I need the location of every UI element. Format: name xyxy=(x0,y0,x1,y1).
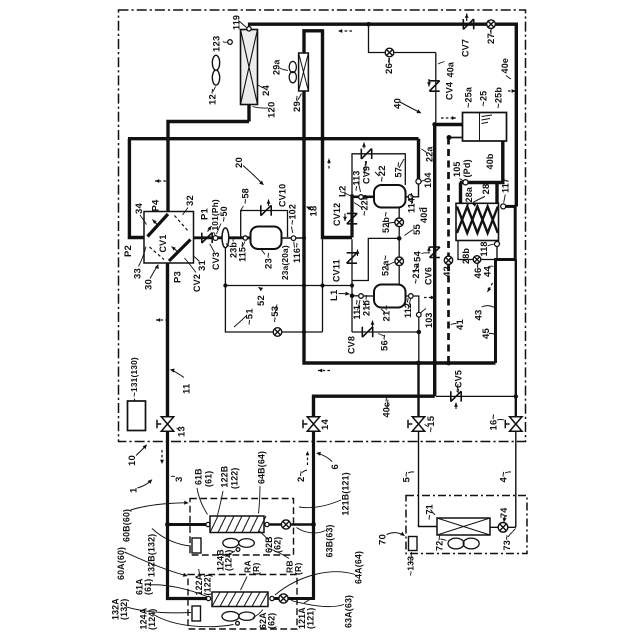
dashed alternate passage upper (32) xyxy=(175,216,189,232)
leader: 42 tilde xyxy=(447,265,448,268)
port circle 117 xyxy=(501,204,506,209)
leader: 50 tilde xyxy=(217,224,222,235)
leader: 64B curve xyxy=(259,486,261,514)
fan 72 xyxy=(448,538,479,549)
wire: valve 52a line into compressor 21 top xyxy=(398,240,400,284)
arrow: dashed 44 flow down-left xyxy=(488,283,493,292)
node: (434.7,124.5) xyxy=(432,122,437,127)
wire: riser to P2 of four-way valve xyxy=(129,139,144,238)
leader: 23 tilde xyxy=(262,250,266,255)
svg-text:L1: L1 xyxy=(329,289,340,301)
shutoff valve 13 xyxy=(157,417,174,431)
svg-text:33: 33 xyxy=(133,268,144,279)
controller box 131 xyxy=(128,401,146,431)
compressor 21 body xyxy=(374,285,406,308)
leader: 33 curve xyxy=(139,247,147,267)
svg-text:23~: 23~ xyxy=(264,252,275,269)
svg-text:52a~: 52a~ xyxy=(381,255,391,276)
node: pipe3 x branch xyxy=(165,522,170,527)
svg-text:CV6: CV6 xyxy=(424,267,434,285)
svg-text:P3: P3 xyxy=(173,271,184,283)
svg-text:(122): (122) xyxy=(203,574,213,596)
svg-text:5~: 5~ xyxy=(402,471,413,482)
port circle 111 (21b) xyxy=(359,294,364,299)
expansion valve 74 xyxy=(498,523,508,533)
arrow: CV9 flow up xyxy=(362,143,366,149)
wire: pipe 3 below valve 13 xyxy=(166,432,169,599)
wire: x=352 down to CV8 line xyxy=(351,296,353,332)
leader: CV9 tilde xyxy=(365,161,366,175)
port circle 114 xyxy=(408,195,413,200)
node: (352,295.8) xyxy=(350,294,355,299)
leader: 41 tilde xyxy=(451,324,457,325)
leader: CV5 tilde xyxy=(457,384,458,392)
svg-text:10: 10 xyxy=(127,455,138,466)
check valve CV7 on top header xyxy=(463,19,473,29)
leader: 54 tilde xyxy=(422,252,430,255)
wire: CV10 bypass around compressor 23 xyxy=(241,211,288,238)
leader: 74 arrow xyxy=(503,516,507,523)
svg-text:P2: P2 xyxy=(123,245,134,257)
svg-text:CV1: CV1 xyxy=(158,234,168,252)
leader: 61A curve xyxy=(149,585,208,597)
leader: 55 tilde xyxy=(405,230,414,236)
leader: 113 tilde xyxy=(358,182,361,193)
sensor 124A xyxy=(236,621,240,625)
leader: 52 arrow xyxy=(258,287,263,291)
sensor port 105(Pd) xyxy=(463,180,468,185)
svg-text:122B: 122B xyxy=(220,466,230,488)
leader: 31 curve xyxy=(194,257,200,262)
leader: 71 tilde xyxy=(431,510,436,516)
leader: 63B curve xyxy=(297,528,326,533)
wire: CV4 vertical line x=435.8 xyxy=(435,53,437,125)
arrow: CV5 flow up xyxy=(454,403,458,410)
leader: CV3 curve xyxy=(210,244,215,253)
arrow: dashed right 103 xyxy=(424,296,435,300)
wire: 28b left port line through valve 46 xyxy=(458,241,494,260)
leader: 64A curve xyxy=(275,572,355,595)
port circle 112 xyxy=(409,294,414,299)
svg-text:28a: 28a xyxy=(464,186,474,202)
svg-text:55: 55 xyxy=(412,224,423,235)
leader: 52a tilde xyxy=(385,262,395,267)
leader: 133 tilde xyxy=(411,552,412,564)
indoor heat exchanger 61A/64A (hatched) xyxy=(212,592,268,607)
node: junction riser x=322.5 x long line xyxy=(320,136,325,141)
leader: 52b tilde xyxy=(385,223,395,225)
shutoff valve 15 xyxy=(408,417,425,431)
svg-text:101(Ph): 101(Ph) xyxy=(210,199,220,230)
wire: link x=322.5 between y=285.5 and y=332 xyxy=(322,286,324,333)
node: bus x CV6 line xyxy=(432,361,437,366)
wire: node to port 111 xyxy=(352,295,359,297)
svg-text:28b: 28b xyxy=(461,248,471,264)
node: (304,332) xyxy=(302,330,306,334)
leader: 40 arrow xyxy=(400,102,422,113)
leader: 28a tilde xyxy=(467,204,470,207)
wire: HX24 bottom to riser x=168 xyxy=(168,122,249,212)
fan 29a of HX29 xyxy=(289,61,296,82)
svg-text:16~: 16~ xyxy=(489,414,500,431)
leader: CV2 curve xyxy=(185,258,197,273)
check valve CV3 xyxy=(202,233,212,243)
leader: 51 tilde xyxy=(234,316,246,327)
arrow: dashed flow left on pipe 11 y=320 xyxy=(156,318,168,322)
node: (399.2,238.4) xyxy=(397,236,402,241)
svg-text:CV12: CV12 xyxy=(332,203,342,226)
svg-text:11: 11 xyxy=(182,383,193,394)
arrow: CV8 flow up xyxy=(371,321,375,328)
indoor unit B dashed box 60B xyxy=(190,499,294,556)
svg-text:132B(132): 132B(132) xyxy=(147,534,157,577)
svg-text:120: 120 xyxy=(267,102,278,118)
arrow: CV12 flow down xyxy=(343,214,347,222)
wire: lower right pipe x=515.2 down to shutoff valve 16 xyxy=(515,260,517,417)
indoor unit A dashed box 60A xyxy=(188,575,297,630)
wire: thick into box 25 xyxy=(435,123,463,126)
leader: 18 arrow xyxy=(306,207,312,211)
svg-text:117: 117 xyxy=(501,178,511,193)
check valve CV9 on bypass 57 xyxy=(361,149,371,159)
leader: 60B arrow xyxy=(131,501,189,510)
node: start of bold dashed line 41 xyxy=(447,135,452,140)
svg-text:24: 24 xyxy=(261,85,272,96)
leader: 2 tilde xyxy=(302,470,307,473)
leader: 24 tilde xyxy=(258,85,263,88)
plate heat exchanger 28 body xyxy=(456,203,499,240)
leader: L2 curve xyxy=(340,192,351,197)
svg-text:42: 42 xyxy=(442,266,453,277)
leader: 11 curve xyxy=(170,369,184,378)
leader: 15 tilde xyxy=(425,425,429,428)
svg-text:64A(64): 64A(64) xyxy=(354,551,364,584)
four-way valve 30 body xyxy=(144,212,194,264)
sensor box 133 xyxy=(409,537,418,551)
heat exchanger 71 xyxy=(437,518,490,535)
arrow: CV4 flow down xyxy=(427,79,431,87)
port circle 113 xyxy=(359,195,364,200)
expansion valve 52b xyxy=(395,218,404,227)
port 115 xyxy=(243,236,247,240)
leader: 46 tilde xyxy=(476,265,479,270)
wire: HX24 top stub xyxy=(248,23,250,30)
svg-text:~51: ~51 xyxy=(245,308,256,325)
svg-text:116~: 116~ xyxy=(292,242,302,263)
svg-text:~102: ~102 xyxy=(288,204,298,225)
wire: compressor 23 discharge to pipe 18 xyxy=(282,237,304,239)
leader: 72 tilde xyxy=(441,539,447,541)
svg-text:60B(60): 60B(60) xyxy=(122,509,132,542)
port circle 118 xyxy=(495,242,500,247)
unit 70 dash-dot box xyxy=(406,496,527,554)
wire: P3 line down to valve 13 xyxy=(166,263,169,416)
wire: pipe3 bottom corner to HX-A xyxy=(168,597,207,599)
wire: bold dashed line 41 xyxy=(447,138,450,363)
svg-text:44: 44 xyxy=(483,266,494,277)
svg-text:CV9~: CV9~ xyxy=(362,160,372,184)
leader: 56 tilde xyxy=(378,334,384,337)
svg-text:74: 74 xyxy=(499,508,509,518)
receiver/accumulator box 25 xyxy=(463,113,507,142)
node: bus x valve15 riser xyxy=(416,361,421,366)
node: (352,285.5) xyxy=(350,283,354,287)
HX-A left port xyxy=(206,596,210,600)
leader: 22a tilde xyxy=(422,149,427,153)
svg-text:~22b: ~22b xyxy=(360,194,370,216)
node: (304,285.5) xyxy=(302,283,306,287)
svg-text:115~: 115~ xyxy=(238,241,248,262)
svg-text:57~: 57~ xyxy=(394,162,404,178)
wire: pipe 5 into HX71 xyxy=(419,525,438,527)
sensor port 101(Ph)/50 xyxy=(213,236,218,241)
wire: right pipe from 117 down to y=259.5 then left and down to bus xyxy=(496,206,516,363)
sensor box 132A xyxy=(192,606,201,621)
svg-text:(121): (121) xyxy=(306,607,316,629)
leader: 44 tilde xyxy=(489,265,494,268)
leader: 5 tilde xyxy=(408,472,414,473)
leader: RB curve xyxy=(268,548,290,559)
svg-text:40a: 40a xyxy=(446,61,456,77)
svg-text:61B: 61B xyxy=(194,468,204,485)
wire: valve 15 riser xyxy=(417,363,419,416)
leader: 131 box leader xyxy=(134,399,135,401)
leader: 45 tilde xyxy=(489,333,495,334)
leader: 119 to port xyxy=(239,21,247,28)
leader: 32 curve xyxy=(183,208,189,216)
wire: box 25 outlet down then left (y=182.5) into HX28 xyxy=(460,141,503,183)
leader: 103 tilde xyxy=(421,309,427,314)
valve 42 on bold dashed line xyxy=(444,256,452,264)
wire: right main pipe x=516.3 down to HX28 port 117 xyxy=(515,23,518,207)
svg-text:52b~: 52b~ xyxy=(381,211,391,233)
node: (225,285.5) xyxy=(223,283,227,287)
leader: 53 tilde xyxy=(275,305,277,314)
leader: 22b tilde xyxy=(354,203,362,208)
svg-text:3: 3 xyxy=(174,477,185,482)
wire: port 112 right then down through 103 xyxy=(413,296,419,312)
leader: 4 tilde xyxy=(505,472,511,473)
leader: 20 arrow xyxy=(243,166,264,186)
wire: CV11 line x=352 from 239 to 296 xyxy=(351,239,353,295)
node: bus x bold dashed xyxy=(446,361,451,366)
leader: 61B curve xyxy=(197,488,208,515)
HX-B left port xyxy=(206,522,210,526)
node: (322.5,285.5) xyxy=(320,283,324,287)
leader: 58 leader xyxy=(241,206,244,210)
dashed alternate passage lower xyxy=(150,247,165,260)
svg-text:(122): (122) xyxy=(230,467,240,489)
leader: 62A curve xyxy=(253,610,263,618)
wire: compressor 21 right port to x=418.8 xyxy=(406,295,409,297)
leader: 28 arrow xyxy=(472,197,486,207)
svg-text:(61): (61) xyxy=(143,579,153,595)
svg-text:~25: ~25 xyxy=(479,91,489,107)
expansion valve 52a xyxy=(395,257,404,266)
wire: P1 to compressor 23 suction xyxy=(194,236,251,239)
leader: 122B curve xyxy=(218,491,224,515)
arrow: dashed flow left under top header xyxy=(338,29,352,33)
passage CV1 inside valve 30 (P4 to P2) xyxy=(148,214,169,237)
svg-text:CV8: CV8 xyxy=(347,336,357,354)
fan RA of unit A xyxy=(222,612,255,622)
arrow: dashed up x=329 xyxy=(327,159,331,169)
leader: 10 arrow xyxy=(136,444,147,455)
svg-text:73~: 73~ xyxy=(502,535,512,551)
leader: 111 tilde xyxy=(358,300,361,311)
svg-text:123: 123 xyxy=(212,36,223,52)
svg-text:63A(63): 63A(63) xyxy=(344,595,354,628)
valve 53 on line y=332 xyxy=(273,328,282,337)
leader: 70 arrow xyxy=(387,532,406,536)
wire: branch pipe3 to HX-B xyxy=(168,523,207,526)
arrow: dashed flow left y=370.5 xyxy=(318,369,330,373)
svg-text:~22: ~22 xyxy=(377,165,388,182)
svg-text:(Pd): (Pd) xyxy=(462,159,472,177)
valve 27 on top header xyxy=(487,20,496,29)
leader: 121A curve xyxy=(304,598,313,604)
compressor 23 body xyxy=(251,227,282,250)
arrow: CV10 flow up xyxy=(267,200,271,207)
leader: 16 tilde xyxy=(497,419,504,422)
fan RB of unit B xyxy=(223,538,255,547)
svg-text:29~: 29~ xyxy=(292,95,303,112)
expansion valve 63A xyxy=(279,594,288,603)
arrow: dashed down left of pipe 3 xyxy=(160,450,164,464)
wire: bypass 57 with CV9 over accumulator 22 xyxy=(352,154,405,194)
leader: L1 arrow xyxy=(339,292,351,296)
svg-text:L2: L2 xyxy=(338,186,349,198)
svg-text:14: 14 xyxy=(320,419,331,430)
svg-text:(62): (62) xyxy=(267,613,277,629)
check valve CV4 xyxy=(429,81,439,91)
svg-text:43: 43 xyxy=(474,310,485,321)
svg-text:27~: 27~ xyxy=(486,27,497,44)
leader: 40d tilde xyxy=(419,208,421,212)
leader: 112 tilde xyxy=(408,299,411,309)
leader: 120 curve xyxy=(253,107,269,109)
wire: pipe 5 below valve 15 xyxy=(418,432,420,527)
arrow: CV1 passage direction xyxy=(153,220,159,226)
sensor circle 123 (air temp) xyxy=(228,40,233,45)
arrow: CV2 passage direction xyxy=(172,247,179,253)
port circle 119 on HX24 top xyxy=(247,27,251,31)
leader: 132B curve xyxy=(152,529,191,547)
svg-text:40d: 40d xyxy=(419,207,429,223)
passage CV2 inside valve 30 (P1 to P3) xyxy=(169,240,191,262)
leader: 12 tilde xyxy=(213,87,216,92)
svg-text:40e: 40e xyxy=(500,58,510,74)
leader: 22 tilde xyxy=(375,172,379,176)
svg-text:54: 54 xyxy=(413,251,424,262)
heat exchanger 24 (outdoor) xyxy=(241,30,258,105)
port circle 104 xyxy=(416,179,421,184)
wire: port 113 to accumulator 22 xyxy=(363,196,374,199)
wire: line 51 down from muffler then right (y=332) xyxy=(225,248,322,333)
expansion valve 63B xyxy=(281,520,290,529)
leader: 29a tilde xyxy=(280,68,288,71)
svg-text:~58: ~58 xyxy=(241,188,251,204)
svg-text:CV2: CV2 xyxy=(192,274,202,292)
shutoff valve 14 xyxy=(303,417,320,431)
svg-text:41: 41 xyxy=(455,319,466,330)
svg-text:CV10: CV10 xyxy=(278,184,288,207)
wire: port 114 to riser xyxy=(413,184,419,197)
node: junction (168,138.7) xyxy=(166,136,171,141)
port circle 103 xyxy=(417,312,422,317)
leader: 23b tilde xyxy=(226,244,230,247)
leader: 21b tilde xyxy=(363,301,366,308)
svg-text:40c~: 40c~ xyxy=(382,396,392,417)
svg-text:21b~: 21b~ xyxy=(362,294,372,316)
leader: 29 tilde xyxy=(298,94,302,101)
leader: 30 arrow xyxy=(150,264,159,279)
wire: thick from corner (352,196.8) right to port 113 xyxy=(352,196,359,199)
leader: 73 to corner xyxy=(513,529,516,532)
leader: 1 arrow xyxy=(138,479,153,488)
svg-text:121B(121): 121B(121) xyxy=(341,472,351,515)
leader: 26 tilde xyxy=(388,58,391,65)
leader: 115 tilde xyxy=(242,242,245,248)
shutoff valve 16 xyxy=(505,417,522,431)
heat exchanger 29 xyxy=(299,53,309,91)
arrow: dashed up left of pipe 2 xyxy=(306,451,310,465)
check valve CV11 xyxy=(347,253,357,263)
wire: drop to HX28 top-right xyxy=(495,183,498,204)
svg-text:CV7: CV7 xyxy=(461,39,471,57)
leader: 124B curve xyxy=(226,551,236,557)
svg-text:34: 34 xyxy=(134,203,145,214)
svg-text:105: 105 xyxy=(452,161,462,177)
wire: line 52 (y=285.5) from x=225 to CV11 line xyxy=(225,285,351,287)
svg-text:52: 52 xyxy=(256,295,267,306)
outer dash-dot enclosure box 10 xyxy=(119,10,526,442)
check valve CV8 xyxy=(362,327,372,337)
valve 26 on bypass xyxy=(385,48,394,57)
leader: 114 tilde xyxy=(411,200,412,205)
svg-text:56~: 56~ xyxy=(380,334,391,351)
svg-text:~21a: ~21a xyxy=(411,262,421,284)
check valve CV12 on x=352 xyxy=(347,213,357,223)
indoor heat exchanger 61B/64B (hatched) xyxy=(210,516,266,533)
wire: unit-20 left riser x=322.5 down to elbow then right xyxy=(323,29,353,237)
svg-text:70: 70 xyxy=(378,534,389,545)
wire: HX-A through valve 63A to pipe 2 corner xyxy=(274,596,314,599)
svg-text:~50: ~50 xyxy=(219,206,229,222)
wire: bypass from node(368.5,24) down and right to CV4 line xyxy=(369,24,436,52)
leader: 21a tilde xyxy=(415,265,419,273)
wire: accumulator 22 right port to riser x=418.5 xyxy=(406,196,409,198)
svg-text:13: 13 xyxy=(177,426,188,437)
leader: 116 tilde xyxy=(293,242,296,248)
wire: HX24 bottom stub down to y=121.5 xyxy=(247,105,250,122)
leader: 104 tilde xyxy=(422,180,426,182)
svg-text:CV4: CV4 xyxy=(445,82,455,100)
wire: thin stub from bold-dash line to box 25 xyxy=(449,137,463,139)
arrow: dashed flow right near 40e xyxy=(508,89,516,93)
wire: CV8 line y=332 xyxy=(352,331,419,333)
fan 12 of HX24 xyxy=(212,55,219,85)
leader: 122A curve xyxy=(199,569,200,577)
valve 46 xyxy=(473,256,481,264)
HX-A right port xyxy=(270,596,274,600)
arrow: CV6 flow up xyxy=(427,247,431,254)
node: discharge joins pipe 18 xyxy=(302,236,306,240)
wire: pipe 4 below valve 16 xyxy=(515,432,517,528)
wire: HX-B to valve 63B to pipe 2 xyxy=(269,523,314,526)
wire: long horizontal line y=138.7 (pipe 34/22a header) xyxy=(128,137,419,140)
muffler 23b (oval) xyxy=(222,228,229,248)
